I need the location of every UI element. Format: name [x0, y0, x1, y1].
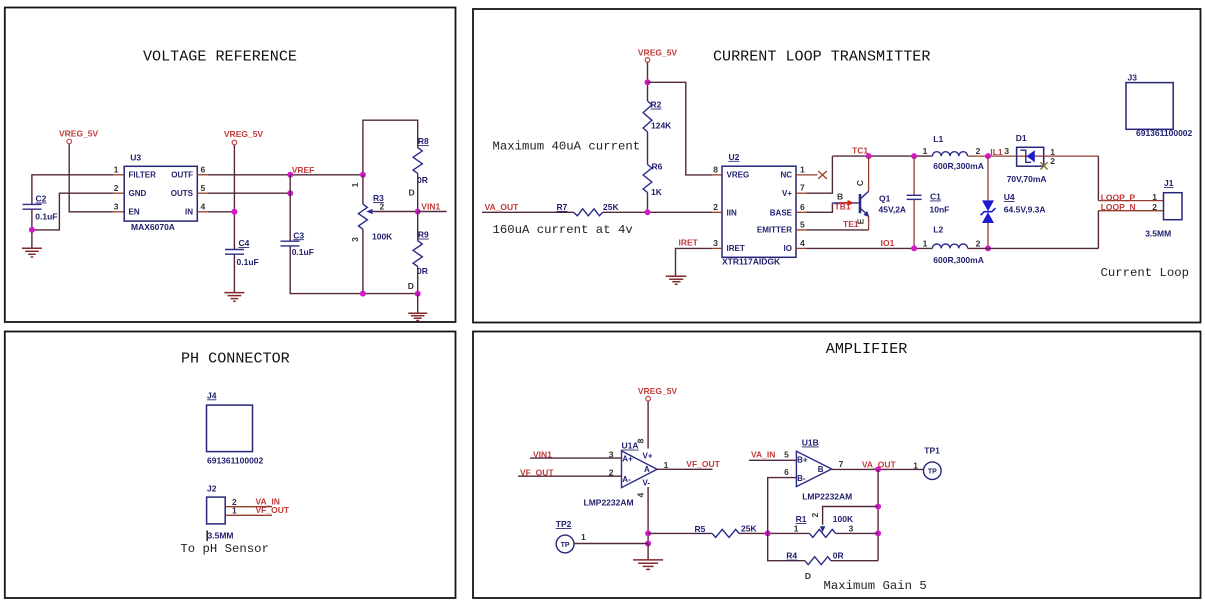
node junction C1 bottom: [911, 245, 917, 251]
node junction R1 wiper rail: [875, 504, 881, 510]
diode D1 cathode bar: [1020, 150, 1031, 162]
wire U1B output: [832, 468, 924, 470]
ground (under R9): [408, 313, 427, 320]
svg-text:B: B: [818, 465, 824, 474]
svg-text:J1: J1: [1164, 178, 1174, 188]
transistor Q1 base bar: [859, 194, 862, 213]
svg-text:D1: D1: [1016, 133, 1027, 143]
wire TC1 rail: [832, 155, 932, 157]
svg-text:2: 2: [114, 183, 119, 193]
IC U2 XTR117AIDGK box: [722, 166, 796, 257]
svg-text:R5: R5: [695, 524, 706, 534]
wire V+ to TC1 rail: [807, 156, 833, 193]
svg-text:A-: A-: [622, 475, 631, 484]
pin stub U3 pin3: [114, 211, 125, 213]
svg-text:IL1: IL1: [990, 147, 1003, 157]
svg-text:10nF: 10nF: [930, 205, 950, 215]
wire U1A output: [657, 468, 712, 470]
node junction VIN1: [415, 209, 421, 215]
svg-text:A+: A+: [622, 455, 633, 464]
node junction C2/GND: [29, 227, 35, 233]
wire R1 wiper rail: [823, 507, 879, 525]
diode D1 triangle: [1027, 150, 1035, 162]
diode D1 box: [1017, 147, 1044, 166]
svg-text:LOOP_N: LOOP_N: [1101, 202, 1136, 212]
svg-text:VOLTAGE REFERENCE: VOLTAGE REFERENCE: [143, 48, 297, 66]
svg-text:Current Loop: Current Loop: [1101, 266, 1190, 280]
svg-text:2: 2: [713, 202, 718, 212]
svg-text:D: D: [805, 571, 811, 581]
svg-text:A: A: [644, 465, 650, 474]
wire R5 to R1 node: [739, 532, 810, 534]
connector J2 box: [207, 497, 226, 524]
wire VREG branch to U2 pin8: [648, 82, 712, 175]
svg-text:2: 2: [609, 468, 614, 478]
svg-text:4: 4: [800, 238, 805, 248]
svg-text:6: 6: [201, 165, 206, 175]
connector J3 box: [1126, 83, 1173, 130]
wire LOOP_N riser: [1097, 211, 1099, 249]
capacitor C4: [225, 249, 244, 251]
svg-text:0R: 0R: [417, 266, 428, 276]
wire TP2 to ground node: [574, 543, 648, 545]
pin stub U2 pin1 NC: [796, 174, 818, 176]
frame quadrant PH CONNECTOR: [5, 332, 456, 599]
pin stub U3 pin5: [197, 192, 208, 194]
pin stub U2 pin5 EMITTER: [796, 229, 807, 231]
pin stub U3 pin1: [114, 174, 125, 176]
node junction OUTS: [287, 190, 293, 196]
svg-text:R4: R4: [786, 551, 797, 561]
svg-text:7: 7: [800, 183, 805, 193]
svg-text:B+: B+: [797, 456, 808, 465]
frame quadrant AMPLIFIER: [473, 332, 1201, 599]
resistor R7: [574, 209, 603, 216]
R1 wiper arrow: [820, 526, 825, 532]
svg-text:VF_OUT: VF_OUT: [256, 505, 290, 515]
wire J2 pin1 VF_OUT: [225, 514, 272, 516]
wire ground stem: [647, 544, 649, 560]
wire VIN1 to R9: [417, 212, 419, 241]
node junction U4 bottom: [985, 245, 991, 251]
svg-text:TB1: TB1: [835, 201, 851, 211]
svg-text:70V,70mA: 70V,70mA: [1007, 174, 1047, 184]
svg-text:To pH Sensor: To pH Sensor: [180, 542, 269, 556]
svg-text:1: 1: [114, 165, 119, 175]
svg-text:L1: L1: [933, 134, 943, 144]
svg-text:LOOP_P: LOOP_P: [1101, 192, 1136, 202]
wire VREF branch to C3: [289, 175, 291, 241]
svg-text:5: 5: [201, 183, 206, 193]
wire L2 to LOOP_N riser: [968, 247, 1099, 249]
svg-text:3: 3: [609, 449, 614, 459]
ground (under C2): [22, 248, 42, 257]
transistor Q1 base lead: [832, 202, 860, 204]
wire IRET net to ground: [676, 248, 712, 276]
wire IO1 net: [807, 247, 933, 249]
wire D1 to LOOP_P: [1097, 156, 1099, 201]
wire R1 to junction: [836, 532, 879, 534]
svg-text:U4: U4: [1004, 192, 1015, 202]
wire VF_OUT to U1A pin2: [518, 475, 622, 477]
node junction VREF: [287, 172, 293, 178]
svg-text:Q1: Q1: [879, 193, 891, 203]
pin stub U2 pin4 IO: [796, 247, 807, 249]
svg-text:LMP2232AM: LMP2232AM: [802, 491, 852, 501]
wire R4 branch: [768, 533, 805, 560]
TVS U4: [987, 156, 989, 200]
connector J4 box: [207, 405, 253, 452]
test point TP1: [924, 462, 942, 480]
svg-text:IO: IO: [784, 244, 792, 253]
svg-text:AMPLIFIER: AMPLIFIER: [826, 340, 908, 358]
svg-text:C1: C1: [930, 192, 941, 202]
svg-text:3.5MM: 3.5MM: [208, 530, 234, 540]
wire R4 to VA_OUT riser: [831, 560, 878, 562]
svg-text:IRET: IRET: [727, 244, 745, 253]
svg-text:R6: R6: [652, 161, 663, 171]
wire VA_OUT net: [482, 211, 574, 213]
wire VREG_5V down through IN to C4: [233, 145, 235, 250]
svg-text:25K: 25K: [741, 524, 757, 534]
wire OUTS net: [208, 192, 290, 194]
wire feedback to U1B pin6: [768, 478, 797, 534]
svg-text:1: 1: [664, 460, 669, 470]
op-amp U1B triangle: [796, 451, 831, 486]
svg-text:VF_OUT: VF_OUT: [686, 459, 720, 469]
svg-text:64.5V,9.3A: 64.5V,9.3A: [1004, 205, 1046, 215]
svg-text:OUTF: OUTF: [171, 171, 193, 180]
wire R6 to IIN net: [647, 193, 649, 213]
svg-text:4: 4: [636, 492, 646, 497]
node junction R9 rail: [415, 291, 421, 297]
svg-text:TP: TP: [561, 542, 570, 549]
svg-text:1: 1: [232, 506, 237, 516]
svg-text:FILTER: FILTER: [129, 171, 157, 180]
connector J1 box: [1164, 193, 1183, 220]
svg-text:D: D: [408, 281, 414, 291]
diode D1 wire through: [1017, 155, 1099, 157]
svg-text:MAX6070A: MAX6070A: [131, 222, 175, 232]
svg-text:VREG_5V: VREG_5V: [59, 129, 99, 139]
wire C4 to ground: [233, 254, 235, 292]
wire C3 to bottom rail: [290, 246, 418, 294]
wire IN net: [208, 211, 235, 213]
pin stub U3 pin4: [197, 211, 208, 213]
svg-text:3: 3: [849, 523, 854, 533]
svg-text:3: 3: [1004, 146, 1009, 156]
wire R5 left: [648, 532, 712, 534]
transistor Q1 collector: [868, 156, 870, 191]
svg-text:600R,300mA: 600R,300mA: [933, 255, 984, 265]
svg-text:2: 2: [1152, 202, 1157, 212]
svg-text:4: 4: [201, 202, 206, 212]
svg-text:8: 8: [713, 164, 718, 174]
ground (under C4): [224, 293, 244, 302]
svg-text:U2: U2: [729, 152, 740, 162]
svg-text:VA_OUT: VA_OUT: [485, 202, 520, 212]
pin stub U2 pin6 BASE: [796, 211, 807, 213]
svg-text:3: 3: [713, 238, 718, 248]
svg-text:V+: V+: [782, 189, 792, 198]
svg-text:B-: B-: [797, 474, 806, 483]
svg-text:1: 1: [581, 532, 586, 542]
svg-text:C: C: [855, 180, 865, 186]
node junction R1 pin3: [875, 530, 881, 536]
svg-text:7: 7: [839, 459, 844, 469]
svg-text:OUTS: OUTS: [171, 189, 194, 198]
wire J2 pin2 VA_IN: [225, 506, 272, 508]
ground (amplifier): [633, 560, 663, 570]
svg-text:B: B: [837, 192, 843, 202]
svg-text:C2: C2: [36, 194, 47, 204]
svg-text:1: 1: [800, 164, 805, 174]
svg-text:EN: EN: [129, 208, 140, 217]
svg-text:IIN: IIN: [727, 209, 737, 218]
svg-text:160uA current at 4v: 160uA current at 4v: [493, 223, 633, 237]
wire R2 to R6: [647, 132, 649, 165]
svg-text:691361100002: 691361100002: [207, 455, 264, 465]
wire L1 to IL1 node: [968, 155, 1017, 157]
svg-text:VA_IN: VA_IN: [751, 450, 775, 460]
potentiometer R1 zigzag: [810, 529, 836, 537]
transistor Q1 emitter: [860, 208, 867, 214]
svg-text:TE1: TE1: [843, 219, 859, 229]
svg-text:1: 1: [923, 146, 928, 156]
node junction R3 pin3 rail: [360, 291, 366, 297]
wire VIN1 to U1A pin3: [530, 457, 622, 459]
wire VA_IN to U1B pin5: [749, 459, 796, 461]
svg-text:J4: J4: [207, 390, 217, 400]
svg-text:6: 6: [800, 202, 805, 212]
svg-text:IN: IN: [185, 208, 193, 217]
IC U3 MAX6070A box: [124, 166, 197, 221]
svg-text:100K: 100K: [372, 231, 393, 241]
no-connect X mark (NC): [818, 171, 827, 179]
svg-text:VREG_5V: VREG_5V: [638, 47, 678, 57]
svg-text:R9: R9: [418, 230, 429, 240]
svg-text:R2: R2: [651, 100, 662, 110]
svg-text:C4: C4: [239, 238, 250, 248]
svg-text:D: D: [409, 188, 415, 198]
svg-text:V-: V-: [643, 478, 651, 487]
svg-text:6: 6: [784, 467, 789, 477]
frame quadrant VOLTAGE REFERENCE: [5, 8, 456, 323]
svg-text:5: 5: [800, 219, 805, 229]
wire R9 to bottom rail: [417, 267, 419, 294]
svg-text:C3: C3: [293, 230, 304, 240]
resistor R5: [712, 529, 739, 537]
pin stub U2 pin2: [712, 211, 723, 213]
node junction R5 branch: [645, 530, 651, 536]
node junction feedback: [765, 530, 771, 536]
svg-text:1K: 1K: [651, 187, 663, 197]
svg-text:VREG: VREG: [727, 171, 750, 180]
svg-text:2: 2: [976, 146, 981, 156]
node junction R6/IIN: [645, 209, 651, 215]
svg-text:VREG_5V: VREG_5V: [224, 129, 264, 139]
inductor L1: [932, 152, 967, 156]
svg-text:V+: V+: [643, 451, 653, 460]
pin stub U2 pin7: [796, 192, 807, 194]
wire rail to ground: [417, 294, 419, 314]
svg-text:0.1uF: 0.1uF: [237, 257, 259, 267]
wire VA_OUT feedback riser: [877, 469, 879, 560]
svg-text:EMITTER: EMITTER: [757, 226, 792, 235]
wire VREG_5V to U1A V+: [647, 401, 649, 449]
svg-text:VIN1: VIN1: [421, 201, 440, 211]
pin stub U2 pin8: [712, 174, 723, 176]
wire EMITTER net: [807, 229, 869, 231]
svg-text:0R: 0R: [833, 551, 844, 561]
ground (IRET): [666, 276, 687, 284]
pin stub U3 pin6: [197, 174, 208, 176]
svg-text:VREF: VREF: [292, 165, 315, 175]
svg-text:2: 2: [976, 238, 981, 248]
wire R3 wiper to VIN1: [373, 211, 418, 213]
svg-text:GND: GND: [129, 189, 147, 198]
wire GND net: [32, 193, 114, 230]
capacitor C3: [281, 240, 300, 242]
svg-text:Maximum 40uA current: Maximum 40uA current: [493, 140, 641, 154]
capacitor C1: [913, 156, 915, 195]
svg-text:PH CONNECTOR: PH CONNECTOR: [181, 350, 290, 368]
capacitor C2: [23, 203, 42, 205]
svg-text:1: 1: [923, 238, 928, 248]
svg-text:L2: L2: [933, 225, 943, 235]
svg-text:2: 2: [810, 512, 820, 517]
node junction C1 top: [911, 153, 917, 159]
svg-text:U3: U3: [130, 153, 141, 163]
resistor R9: [413, 241, 422, 267]
pin stub U2 pin3: [712, 247, 723, 249]
op-amp U1A triangle: [622, 451, 658, 488]
frame quadrant CURRENT LOOP TRANSMITTER: [473, 9, 1201, 323]
inductor L2: [932, 244, 967, 248]
svg-text:2: 2: [1050, 156, 1055, 166]
wire BASE net: [807, 203, 833, 212]
wire R7 to U2 pin2: [603, 211, 712, 213]
svg-text:J2: J2: [207, 484, 217, 494]
no-connect X mark (D1 pin2): [1040, 162, 1047, 169]
node junction IN/VREG: [231, 209, 237, 215]
pin tick J2: [206, 531, 208, 542]
svg-text:1: 1: [794, 523, 799, 533]
svg-text:3: 3: [350, 237, 360, 242]
wire VREG_5V to U3 EN: [69, 144, 114, 212]
svg-text:IO1: IO1: [881, 238, 895, 248]
wire C2 to ground: [31, 209, 33, 248]
svg-text:J3: J3: [1128, 72, 1138, 82]
svg-text:TP: TP: [928, 469, 937, 476]
test point TP2: [556, 535, 574, 553]
svg-text:8: 8: [636, 438, 646, 443]
resistor R4: [805, 557, 831, 565]
svg-text:45V,2A: 45V,2A: [879, 204, 907, 214]
svg-text:NC: NC: [780, 171, 792, 180]
svg-text:1: 1: [1152, 192, 1157, 202]
svg-text:LMP2232AM: LMP2232AM: [584, 497, 634, 507]
svg-text:R8: R8: [418, 136, 429, 146]
wire U1A V- down: [647, 487, 649, 544]
svg-text:1: 1: [350, 182, 360, 187]
wire VIN1 stub right: [418, 211, 447, 213]
svg-text:3.5MM: 3.5MM: [1145, 229, 1171, 239]
potentiometer R3 zigzag: [358, 204, 367, 229]
wire VREG_5V down: [647, 62, 649, 101]
svg-text:CURRENT LOOP TRANSMITTER: CURRENT LOOP TRANSMITTER: [713, 48, 930, 66]
svg-text:BASE: BASE: [770, 209, 793, 218]
svg-text:3: 3: [114, 202, 119, 212]
svg-text:TC1: TC1: [852, 146, 868, 156]
svg-text:TP1: TP1: [924, 446, 940, 456]
svg-text:R7: R7: [557, 202, 568, 212]
svg-text:600R,300mA: 600R,300mA: [933, 161, 984, 171]
current arrow TB1: [839, 202, 848, 204]
svg-text:5: 5: [784, 450, 789, 460]
svg-text:VREG_5V: VREG_5V: [638, 386, 678, 396]
svg-text:124K: 124K: [651, 121, 672, 131]
pin stub U3 pin2: [114, 192, 125, 194]
svg-text:TP2: TP2: [556, 519, 572, 529]
svg-text:IRET: IRET: [679, 237, 699, 247]
node junction R3 pin1 / VREF: [360, 172, 366, 178]
svg-text:Maximum Gain 5: Maximum Gain 5: [824, 579, 927, 593]
R3 wiper arrow: [366, 209, 372, 214]
svg-text:XTR117AIDGK: XTR117AIDGK: [722, 256, 781, 266]
svg-text:691361100002: 691361100002: [1136, 128, 1193, 138]
node junction VA_OUT: [875, 466, 881, 472]
node junction VREG branch: [645, 79, 651, 85]
wire R3 pin1 lead: [362, 175, 364, 204]
node junction collector: [866, 153, 872, 159]
svg-text:0R: 0R: [417, 175, 428, 185]
svg-text:U1B: U1B: [802, 438, 819, 448]
resistor R2: [643, 101, 652, 132]
resistor R8: [413, 148, 422, 174]
svg-text:0.1uF: 0.1uF: [35, 211, 57, 221]
wire FILTER net: [32, 175, 114, 205]
svg-text:2: 2: [380, 201, 385, 211]
svg-text:1: 1: [913, 461, 918, 471]
wire R8 to VIN1: [417, 173, 419, 211]
wire top rail to R8: [363, 120, 418, 175]
node junction TP2: [645, 541, 651, 547]
wire OUTF/VREF net: [208, 174, 363, 176]
node junction IL1: [985, 153, 991, 159]
resistor R6: [643, 165, 652, 193]
svg-text:25K: 25K: [603, 202, 619, 212]
wire R3 pin3 lead: [362, 229, 364, 293]
svg-text:0.1uF: 0.1uF: [292, 247, 314, 257]
